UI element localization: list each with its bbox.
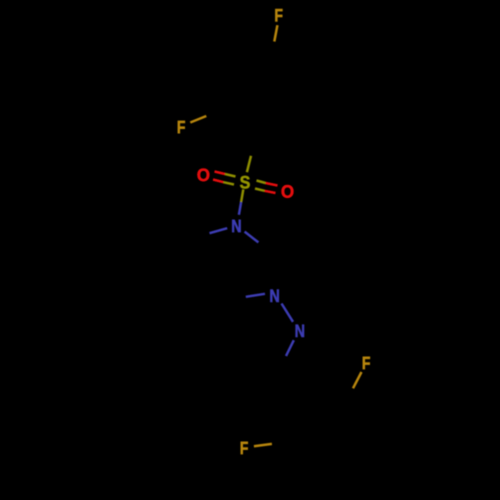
wire bond N1-CH3 (methyl stub left) [210,228,228,233]
wire bond C2-F2 (left fluorine stub) [190,116,206,123]
atom F4 (ortho fluorine, bottom ring left) [241,442,248,454]
wire double bond S=O1 lower line olive half [224,182,235,184]
wire bond S-N1 blue half [239,202,241,215]
atom F1 (para fluorine, top ring) [275,9,282,21]
wire bond N3-CH (stub down left) [286,340,294,356]
atom N3 (imine nitrogen) [296,325,304,337]
wire bond C4-F1 (top fluorine stub) [274,25,277,41]
wire bond S-N1 olive half [241,189,243,202]
wire bond N1-CH2 (stub down right) [245,232,259,243]
atom N1 (sulfonamide nitrogen) [232,220,240,232]
wire double bond S=O1 lower line red half [213,180,224,183]
atom O1 (sulfonyl oxygen left) [197,169,209,182]
wire bond C-F4 (bottom fluorine stub) [254,444,272,446]
atom N2 (hydrazone nitrogen) [270,290,278,302]
atom F3 (ortho fluorine, bottom ring right) [363,357,370,369]
wire double bond S=O1 upper line red half [215,172,226,175]
wire bond N2-N3 [282,304,294,322]
wire double bond S=O2 upper line olive half [257,181,266,184]
atom O2 (sulfonyl oxygen right) [282,185,294,198]
wire double bond S=O2 lower line olive half [255,189,265,191]
atom S1 (sulfonyl sulfur) [240,176,250,189]
wire double bond S=O2 upper line red half [266,183,278,186]
wire bond N2-C (stub left) [246,294,265,297]
wire bond S-C1 (ring stub above S) [247,156,251,172]
wire double bond S=O2 lower line red half [265,191,276,193]
wire bond C-F3 (right fluorine stub) [353,372,362,388]
wire double bond S=O1 upper line olive half [225,174,236,177]
atom F2 (ortho fluorine, top ring) [178,121,185,133]
